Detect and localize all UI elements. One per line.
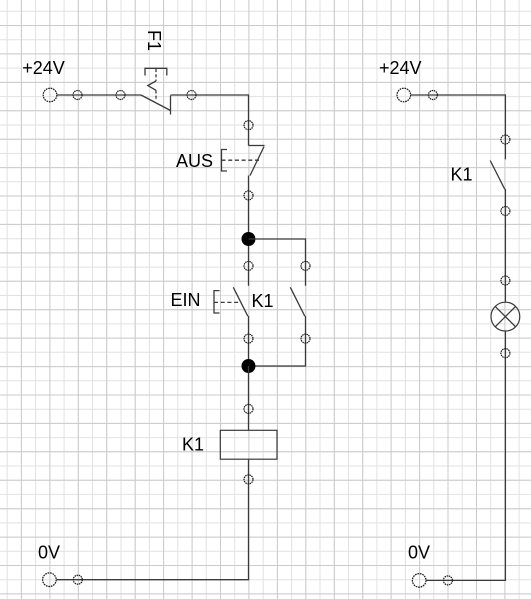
terminal EIN bottom bbox=[244, 334, 253, 343]
wire bbox=[57, 94, 141, 96]
svg-text:F1: F1 bbox=[144, 30, 164, 51]
terminal 0V right bbox=[412, 574, 426, 588]
svg-text:0V: 0V bbox=[408, 543, 430, 563]
connection point bbox=[443, 576, 452, 585]
svg-text:EIN: EIN bbox=[171, 290, 201, 310]
relay coil K1 bbox=[220, 430, 277, 459]
terminal EIN top bbox=[244, 261, 253, 270]
terminal relay coil top bbox=[244, 404, 253, 413]
wire bbox=[171, 95, 249, 146]
connection point bbox=[187, 91, 196, 100]
wire branch to K1 contact bbox=[249, 239, 306, 286]
svg-text:K1: K1 bbox=[252, 291, 274, 311]
svg-text:+24V: +24V bbox=[22, 58, 65, 78]
terminal relay coil bottom bbox=[244, 475, 253, 484]
wire to 0V rail bbox=[426, 331, 505, 580]
wire bbox=[248, 366, 250, 430]
svg-text:K1: K1 bbox=[182, 435, 204, 455]
terminal AUS top bbox=[244, 121, 253, 130]
terminal lamp bottom bbox=[501, 349, 510, 358]
pushbutton EIN (normally open) bbox=[214, 287, 248, 316]
indicator lamp bbox=[491, 302, 520, 331]
relay contact K1 (normally open, lamp branch) bbox=[490, 161, 505, 190]
pushbutton AUS (normally closed) bbox=[222, 146, 265, 176]
wire branch rejoin bbox=[249, 316, 306, 366]
svg-text:AUS: AUS bbox=[176, 151, 213, 171]
terminal K1 contact bottom bbox=[301, 334, 310, 343]
connection point bbox=[116, 91, 125, 100]
wire bbox=[248, 176, 250, 286]
wire bbox=[504, 189, 506, 302]
terminal K1 contact top bbox=[301, 261, 310, 270]
terminal +24V left bbox=[43, 88, 57, 102]
terminal +24V right bbox=[397, 88, 411, 102]
terminal K1 lamp-contact top bbox=[501, 135, 510, 144]
wire bbox=[411, 95, 506, 159]
wire bbox=[248, 316, 250, 366]
junction node bbox=[242, 232, 256, 246]
svg-text:0V: 0V bbox=[38, 543, 60, 563]
circuit breaker F1 bbox=[141, 68, 171, 114]
relay contact K1 (normally open, self-holding) bbox=[290, 287, 305, 316]
terminal K1 lamp-contact bottom bbox=[501, 207, 510, 216]
connection point bbox=[428, 91, 437, 100]
svg-text:K1: K1 bbox=[451, 165, 473, 185]
terminal 0V left bbox=[43, 573, 57, 587]
svg-text:+24V: +24V bbox=[379, 58, 422, 78]
terminal AUS bottom bbox=[244, 191, 253, 200]
wire to 0V rail bbox=[56, 459, 248, 580]
junction node bbox=[242, 359, 256, 373]
connection point bbox=[73, 575, 82, 584]
terminal lamp top bbox=[501, 276, 510, 285]
connection point bbox=[73, 91, 82, 100]
